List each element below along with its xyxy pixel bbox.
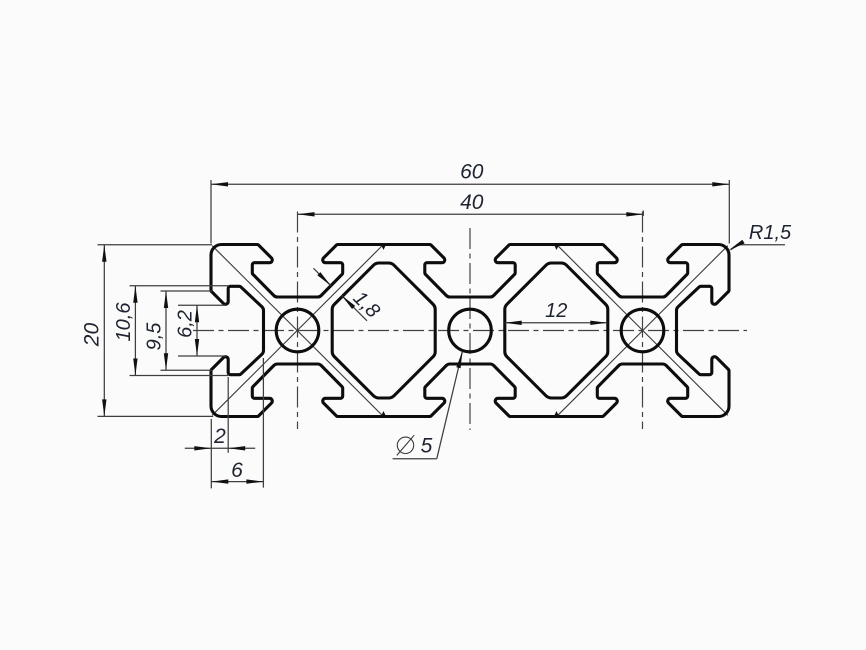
dimension 2 lip depth (185, 377, 255, 488)
svg-text:6: 6 (231, 459, 243, 482)
dimension 6 slot depth (211, 358, 263, 488)
leader diameter 5 center holes (393, 351, 463, 458)
slot center tick marks on tab faces (381, 245, 559, 417)
svg-text:6,2: 6,2 (174, 310, 196, 338)
dimension 6,2 slot neck (174, 305, 226, 356)
svg-text:9,5: 9,5 (143, 322, 165, 351)
profile outer outline (20x60 T-slot extrusion cross-section) (211, 245, 729, 417)
svg-text:20: 20 (81, 323, 104, 348)
vertical centerline hole 3 (642, 212, 644, 430)
dimension 20 overall height (81, 245, 214, 417)
horizontal centerline (193, 330, 747, 332)
svg-text:12: 12 (545, 300, 567, 322)
svg-text:60: 60 (460, 161, 484, 184)
diagonal construction lines cell 1 (212, 245, 383, 417)
dimension 10,6 slot outer span (113, 286, 228, 376)
leader R1,5 corner radius (729, 222, 792, 250)
dimension 9,5 slot mouth span (143, 291, 212, 370)
dimension 12 cavity width (505, 300, 608, 325)
center hole 2 (d5) (449, 309, 492, 352)
center hole 1 (d5) (276, 309, 319, 352)
svg-text:10,6: 10,6 (113, 302, 135, 342)
dimension 40 hole span (298, 191, 644, 217)
svg-text:2: 2 (213, 425, 226, 448)
octagonal cavity 1 (332, 263, 435, 398)
octagonal cavity 2 (505, 263, 608, 398)
dimension 1,8 web thickness (314, 268, 384, 322)
vertical centerline hole 2 (469, 228, 471, 430)
dimension 60 overall width (211, 161, 729, 244)
diagonal construction lines cell 3 (557, 245, 728, 417)
center hole 3 (d5) (621, 309, 664, 352)
vertical centerline hole 1 (297, 212, 299, 430)
svg-text:40: 40 (460, 191, 484, 214)
svg-text:5: 5 (421, 435, 433, 458)
svg-text:R1,5: R1,5 (749, 222, 792, 244)
